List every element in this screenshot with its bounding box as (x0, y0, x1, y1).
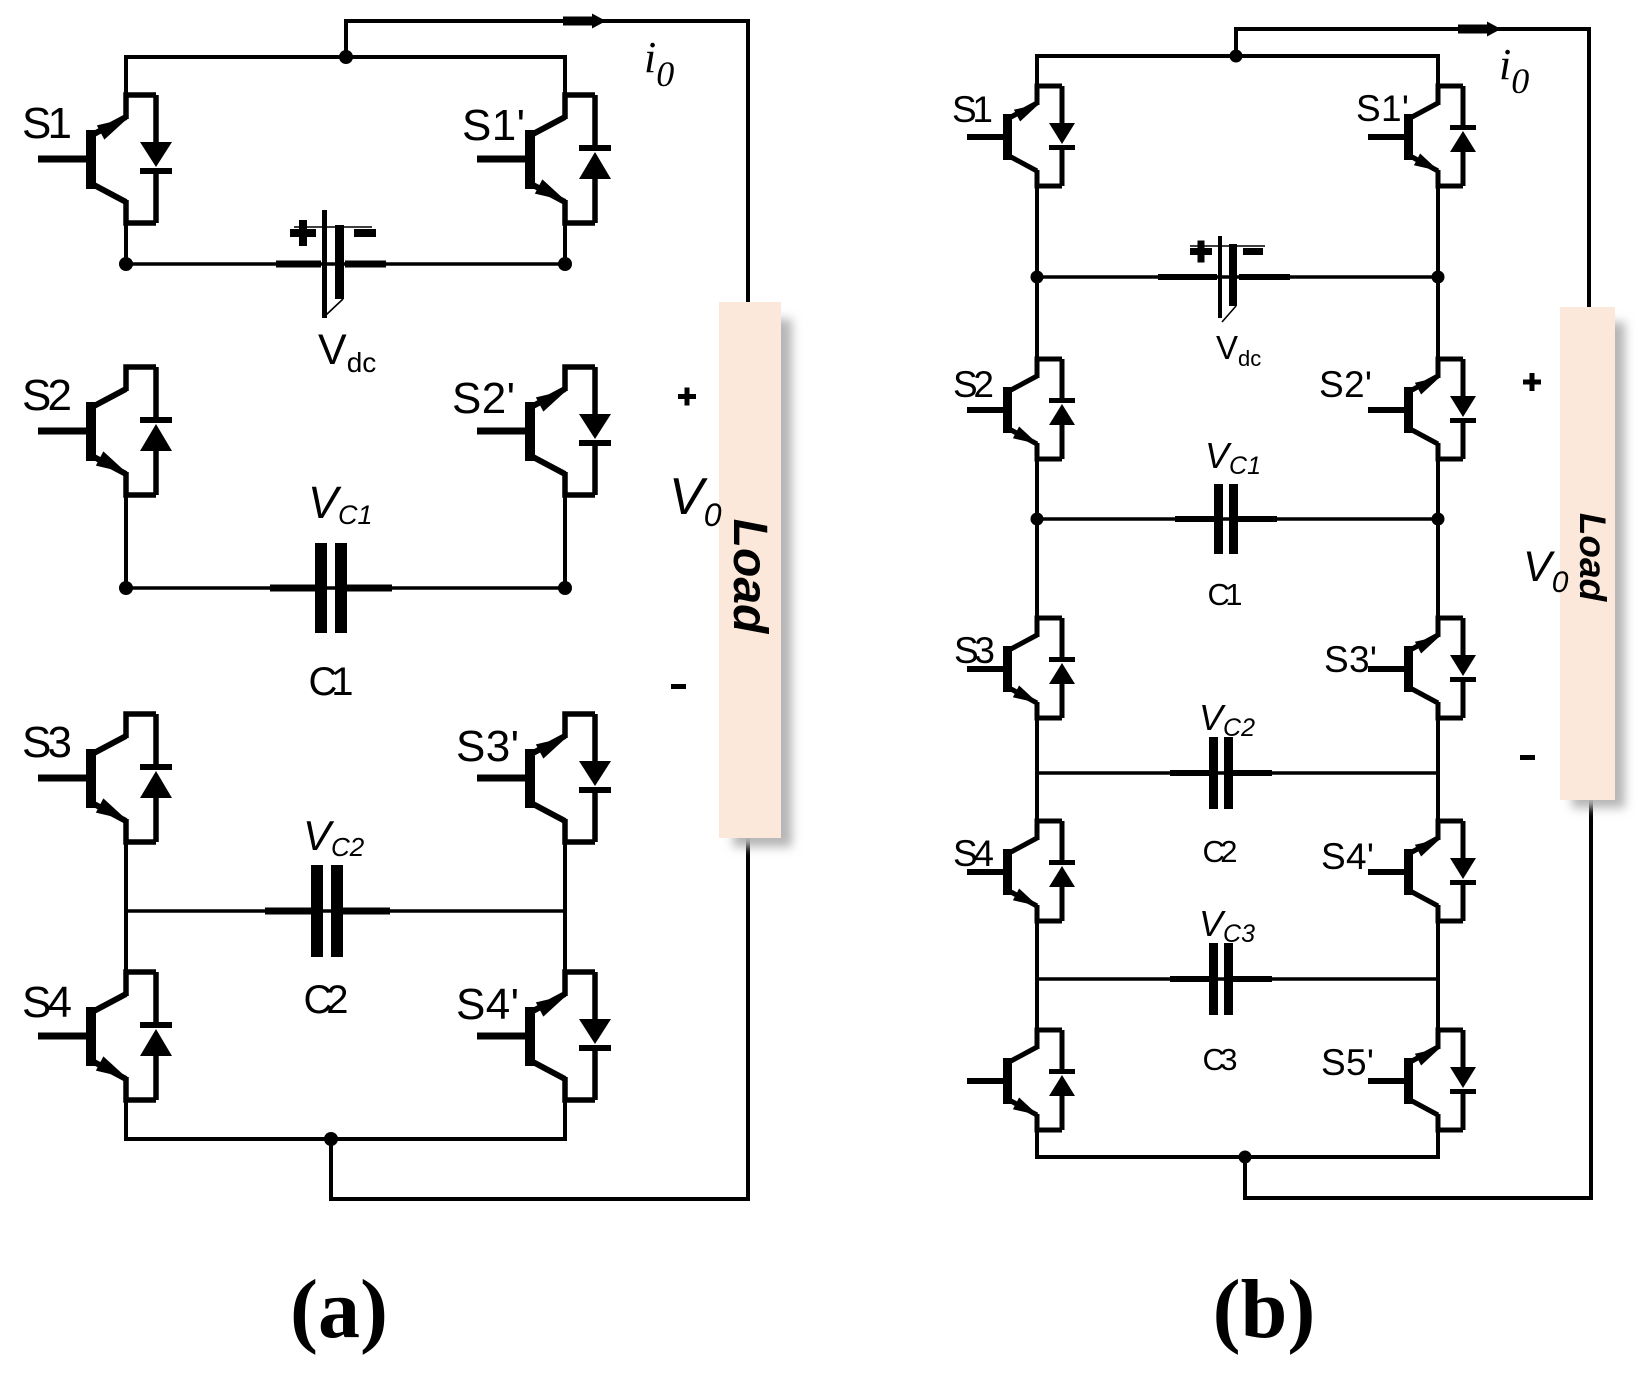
load block (a) (719, 302, 781, 838)
capacitor C2 (b) plates (1209, 737, 1233, 809)
anti-parallel diode of S4' (579, 972, 611, 1100)
svg-text:C1: C1 (1208, 577, 1243, 612)
capacitor C3 (b) plates (1209, 943, 1233, 1015)
load shadow (b) (1572, 322, 1625, 808)
svg-text:C3: C3 (1203, 1042, 1238, 1077)
battery plus sign (a) (290, 220, 316, 246)
battery plus sign (b) (1190, 241, 1212, 263)
circuit (a): output wire to load (top, with i0) (346, 21, 748, 303)
transistor S3' (circuit b, right leg) (1412, 618, 1463, 718)
svg-text:S4: S4 (22, 978, 72, 1027)
circuit (a): left rail wire segments (124, 57, 128, 1141)
svg-text:S3: S3 (954, 630, 995, 671)
battery Vdc (a) plate artifact lines (294, 227, 372, 315)
svg-text:S4': S4' (456, 980, 519, 1029)
circuit (b): bottom rail wire (1035, 1155, 1440, 1159)
svg-text:Load: Load (723, 519, 776, 635)
node: C2 row wire (a) (126, 909, 565, 913)
transistor S1' (circuit b, right leg) (1412, 86, 1463, 186)
anti-parallel diode of S1' (579, 95, 611, 223)
label + (b) (1523, 373, 1541, 391)
transistor S4 (circuit b, left leg) (1011, 821, 1062, 921)
anti-parallel diode of S4' (1450, 821, 1476, 921)
current direction arrow i0 (a) (563, 14, 606, 29)
svg-text:S3': S3' (456, 722, 519, 771)
anti-parallel diode of S1' (1450, 86, 1476, 186)
svg-text:(b): (b) (1213, 1263, 1316, 1356)
svg-text:C2: C2 (304, 978, 349, 1022)
anti-parallel diode of S2 (140, 367, 172, 495)
battery row wire (b) (1037, 275, 1438, 279)
capacitor C1 (b) plates (1214, 484, 1238, 554)
battery Vdc (a) (short negative plate) (335, 225, 344, 299)
battery Vdc (b) plate artifact lines (1190, 246, 1265, 322)
load shadow (a) (733, 319, 792, 847)
transistor S2' (circuit a, right leg) (533, 367, 595, 495)
circuit (b): output wire to load (bottom) (1245, 798, 1591, 1198)
node: C2 row wire (b) (1037, 771, 1438, 775)
anti-parallel diode of S4 (140, 972, 172, 1100)
transistor S3' (circuit a, right leg) (533, 714, 595, 842)
battery minus sign (b) (1243, 248, 1263, 255)
circuit (b): output wire to load (top, with i0) (1236, 29, 1589, 308)
current direction arrow i0 (b) (1458, 22, 1501, 37)
node junction dots (b) (1031, 50, 1445, 1164)
label + (a) (678, 388, 696, 406)
transistor S4 (circuit a, left leg) (94, 972, 156, 1100)
svg-text:S2': S2' (1319, 364, 1372, 405)
circuit (a): bottom rail wire (124, 1137, 567, 1141)
node junction dots (a) (119, 50, 572, 1146)
svg-text:S5': S5' (1321, 1042, 1374, 1083)
battery minus sign (a) (354, 229, 376, 237)
battery Vdc (b) (long positive plate) (1218, 236, 1222, 318)
transistor S1' (circuit a, right leg) (533, 95, 595, 223)
circuit (b): right rail wire segments (1436, 56, 1440, 1159)
circuit (b): top rail wire (1035, 54, 1440, 58)
circuit (a): right rail wire segments (563, 57, 567, 1141)
svg-text:S2: S2 (953, 364, 994, 405)
node: C1 row wire (a) (126, 586, 565, 590)
transistor S5 (circuit b, left leg) (1011, 1030, 1062, 1130)
transistor S3 (circuit a, left leg) (94, 714, 156, 842)
svg-text:C2: C2 (1203, 834, 1238, 869)
label - (b) (1520, 755, 1535, 760)
transistor S5' (circuit b, right leg) (1412, 1030, 1463, 1130)
capacitor C2 (a) plates (311, 865, 343, 957)
anti-parallel diode of S3' (579, 714, 611, 842)
svg-text:S1': S1' (462, 101, 525, 150)
circuit (a): output wire to load (bottom) (331, 836, 748, 1199)
transistor S1 (circuit b, left leg) (1011, 86, 1062, 186)
node: C1 row wire (b) (1037, 517, 1438, 521)
anti-parallel diode of S2 (1049, 359, 1075, 459)
svg-text:Load: Load (1572, 513, 1613, 603)
anti-parallel diode of S3' (1450, 618, 1476, 718)
svg-text:S2': S2' (452, 374, 515, 423)
svg-text:C1: C1 (309, 660, 354, 704)
transistor S2 (circuit b, left leg) (1011, 359, 1062, 459)
svg-text:S1: S1 (22, 99, 72, 148)
anti-parallel diode of S3 (1049, 618, 1075, 718)
circuit (a): top rail wire (124, 55, 567, 59)
load block (b) (1560, 307, 1615, 800)
battery Vdc (b) (short negative plate) (1229, 244, 1237, 306)
anti-parallel diode of S2' (1450, 359, 1476, 459)
svg-text:S2: S2 (22, 371, 72, 420)
node: C3 row wire (b) (1037, 977, 1438, 981)
capacitor C1 (a) plates (315, 543, 347, 633)
battery row wire (a) (126, 262, 565, 266)
battery Vdc (a) (long positive plate) (322, 210, 327, 318)
anti-parallel diode of S5' (1450, 1030, 1476, 1130)
svg-text:(a): (a) (290, 1263, 388, 1356)
transistor S2 (circuit a, left leg) (94, 367, 156, 495)
transistor S1 (circuit a, left leg) (94, 95, 156, 223)
svg-text:S4': S4' (1321, 836, 1374, 877)
anti-parallel diode of S5 (1049, 1030, 1075, 1130)
anti-parallel diode of S1 (1049, 86, 1075, 186)
transistor S4' (circuit a, right leg) (533, 972, 595, 1100)
svg-text:S3: S3 (22, 718, 72, 767)
transistor S2' (circuit b, right leg) (1412, 359, 1463, 459)
svg-text:S1: S1 (952, 89, 993, 130)
svg-text:S4: S4 (953, 833, 994, 874)
circuit (b): left rail wire segments (1035, 56, 1039, 1159)
transistor S4' (circuit b, right leg) (1412, 821, 1463, 921)
svg-text:S1': S1' (1356, 88, 1409, 129)
anti-parallel diode of S3 (140, 714, 172, 842)
anti-parallel diode of S2' (579, 367, 611, 495)
transistor S3 (circuit b, left leg) (1011, 618, 1062, 718)
anti-parallel diode of S4 (1049, 821, 1075, 921)
label - (a) (671, 684, 686, 689)
anti-parallel diode of S1 (140, 95, 172, 223)
svg-text:S3': S3' (1324, 639, 1377, 680)
